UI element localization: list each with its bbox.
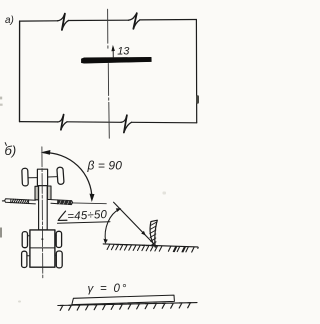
svg-text:β = 90: β = 90 [87, 158, 123, 172]
ground hatching right of blade [168, 246, 194, 252]
beta arc arrowhead at centerline [41, 150, 51, 155]
rear body divider [30, 247, 55, 249]
svg-text:13: 13 [117, 45, 130, 57]
angle arc arrowhead bottom [103, 239, 107, 244]
gamma ground hatching [60, 303, 191, 311]
inclined blade line 45deg [114, 202, 157, 246]
toolbar right arm [51, 200, 73, 205]
svg-text:а): а) [5, 15, 14, 26]
label underline [58, 222, 111, 224]
dimension arrow 13 [112, 47, 114, 57]
angle arc 45-50 [105, 209, 119, 241]
svg-text:γ = 0°: γ = 0° [88, 283, 129, 295]
tractor frame column [39, 186, 48, 230]
flat blade bar (gamma view) [72, 295, 175, 305]
tractor hood [37, 169, 47, 186]
gamma ground line [58, 303, 197, 306]
field outline left edge [19, 21, 21, 122]
rear body box [30, 230, 55, 267]
rear wheel left-bottom [22, 251, 27, 267]
blade bar (thick) [81, 57, 151, 63]
break mark bottom-left [58, 115, 64, 122]
beta arc arrowhead at toolbar [90, 194, 95, 202]
front wheel left [22, 168, 29, 186]
scan speck [163, 192, 167, 195]
vertical centerline (dash-dot) [108, 9, 110, 138]
side plate left [35, 186, 38, 200]
axle stubs [27, 235, 56, 255]
rear wheel right-top [56, 231, 61, 247]
front axle [28, 177, 58, 178]
ground line (angle diagram) [103, 244, 198, 248]
break mark top-left [58, 14, 65, 21]
rear wheel right-bottom [56, 251, 62, 268]
scan noise right edge blob [196, 95, 199, 103]
beta arc [43, 153, 92, 199]
label angle symbol [58, 211, 67, 221]
scan noise left edge marks [0, 97, 2, 100]
break mark bottom-right [121, 115, 127, 122]
field outline top edge [20, 20, 197, 22]
front wheel right [57, 167, 64, 184]
paper background [0, 0, 201, 324]
field outline bottom edge [20, 122, 197, 123]
toolbar right tool dark band [58, 200, 72, 205]
tractor centerline [41, 147, 44, 278]
rear wheel left-top [22, 232, 27, 248]
side plate right [47, 186, 51, 200]
field outline right edge [195, 20, 197, 123]
toolbar direction construction line [73, 202, 107, 205]
arrowhead on inclined line [141, 231, 146, 236]
rear body center dot [41, 238, 43, 240]
break mark top-right [129, 13, 137, 20]
toolbar left tip dart [2, 200, 4, 202]
ground hatching left of blade [107, 244, 162, 251]
blade crescent [150, 220, 157, 247]
toolbar left arm [5, 199, 36, 204]
angle arc arrowhead top [116, 208, 122, 212]
axle center dot [41, 177, 43, 179]
blade hatching [150, 222, 157, 245]
toolbar left tool hatch band [11, 199, 29, 204]
svg-text:=45÷50: =45÷50 [67, 209, 108, 223]
